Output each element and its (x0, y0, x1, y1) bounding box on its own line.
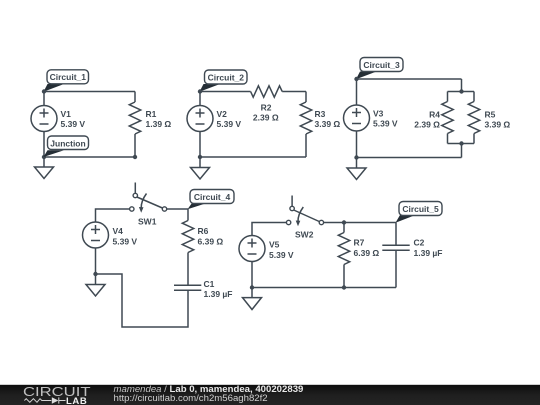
wire V3 top stub (356, 79, 358, 105)
wire top net Circuit_1 (44, 91, 135, 93)
node Circuit_3 junction dot (354, 77, 358, 81)
wire V2 top stub (199, 92, 201, 106)
svg-text:R6: R6 (198, 226, 209, 236)
svg-text:5.39 V: 5.39 V (373, 119, 398, 129)
svg-text:C1: C1 (204, 279, 215, 289)
node V5 bottom dot (250, 285, 254, 289)
svg-text:LAB: LAB (66, 396, 87, 405)
wire parallel top bar (448, 91, 475, 93)
wire bottom net Junction (44, 156, 135, 158)
svg-text:Circuit_1: Circuit_1 (50, 72, 87, 82)
node R7 top dot (342, 220, 346, 224)
wire V3 bottom stub (356, 131, 358, 158)
ground GND5 (243, 298, 262, 310)
wire bottom net circuit 5 (252, 287, 396, 289)
ground GND3 (347, 158, 366, 180)
svg-text:V5: V5 (269, 240, 280, 250)
svg-text:3.39 Ω: 3.39 Ω (485, 120, 511, 130)
node Circuit_1 junction dot (42, 89, 46, 93)
wire V1 top stub (43, 92, 45, 106)
svg-text:C2: C2 (414, 238, 425, 248)
node Junction dot left (42, 155, 46, 159)
footer bar (0, 385, 540, 405)
node R1 bottom dot (133, 155, 137, 159)
node V4 bottom dot (93, 272, 97, 276)
capacitor C2 (382, 223, 442, 288)
wire bottom net circuit 3 (357, 157, 462, 159)
node Circuit_2 junction dot (198, 89, 202, 93)
ground GND2 (191, 157, 210, 179)
label Circuit_1 (44, 70, 89, 92)
wire V2 bottom stub (199, 132, 201, 158)
CircuitLab logo (23, 385, 91, 405)
svg-text:R4: R4 (429, 110, 440, 120)
svg-text:5.39 V: 5.39 V (269, 250, 294, 260)
svg-text:6.39 Ω: 6.39 Ω (354, 248, 380, 258)
svg-text:R5: R5 (485, 110, 496, 120)
capacitor C1 (174, 279, 233, 299)
svg-text:6.39 Ω: 6.39 Ω (198, 237, 224, 247)
voltage source V2 (187, 106, 241, 132)
svg-text:SW1: SW1 (138, 217, 157, 227)
voltage source V5 (239, 236, 294, 262)
svg-text:Junction: Junction (50, 139, 85, 149)
svg-text:1.39 µF: 1.39 µF (414, 248, 443, 258)
svg-text:5.39 V: 5.39 V (113, 237, 138, 247)
resistor R2 (251, 86, 283, 123)
svg-text:5.39 V: 5.39 V (61, 119, 86, 129)
svg-text:Circuit_2: Circuit_2 (208, 72, 245, 82)
wire V1 bottom stub (43, 132, 45, 158)
voltage source V3 (344, 105, 398, 131)
svg-text:R1: R1 (146, 109, 157, 119)
svg-text:V4: V4 (113, 226, 124, 236)
svg-text:V1: V1 (61, 109, 72, 119)
node V3 bottom dot (354, 155, 358, 159)
svg-text:R7: R7 (354, 238, 365, 248)
label Junction (44, 136, 89, 157)
svg-text:R3: R3 (315, 109, 326, 119)
svg-text:2.39 Ω: 2.39 Ω (414, 120, 440, 130)
resistor R5 (468, 92, 510, 144)
resistor R6 (182, 209, 223, 285)
node V2 bottom dot (198, 155, 202, 159)
node R7 bottom dot (342, 285, 346, 289)
voltage source V1 (31, 106, 85, 132)
wire top-right segment (282, 91, 306, 93)
wire SW2 to C2 (324, 222, 396, 224)
wire V5 bottom stub (251, 262, 253, 298)
wire top net Circuit_3 (357, 78, 462, 80)
resistor R3 (300, 92, 340, 158)
svg-text:R2: R2 (261, 103, 272, 113)
svg-text:V2: V2 (217, 109, 228, 119)
svg-text:1.39 µF: 1.39 µF (204, 289, 233, 299)
label Circuit_2 (200, 70, 248, 92)
resistor R1 (129, 92, 171, 158)
ground GND1 (35, 157, 54, 179)
switch SW2 (286, 196, 323, 240)
svg-text:5.39 V: 5.39 V (217, 119, 242, 129)
resistor R4 (414, 92, 453, 144)
label Circuit_4 (188, 190, 235, 210)
wire top-left net Circuit_2 (200, 91, 251, 93)
svg-text:http://circuitlab.com/ch2m56ag: http://circuitlab.com/ch2m56agh82f2 (114, 393, 268, 404)
wire V4 bottom stub (95, 248, 97, 285)
svg-text:3.39 Ω: 3.39 Ω (315, 119, 341, 129)
node parallel top dot (459, 89, 463, 93)
label Circuit_5 (396, 202, 443, 223)
wire C1 bottom return (96, 274, 189, 327)
wire V4 top stub (96, 209, 130, 222)
resistor R7 (338, 223, 379, 288)
wire parallel bottom bar (448, 143, 475, 145)
svg-text:V3: V3 (373, 109, 384, 119)
voltage source V4 (83, 222, 138, 248)
svg-text:Circuit_4: Circuit_4 (194, 192, 231, 202)
svg-text:Circuit_5: Circuit_5 (402, 204, 439, 214)
wire parallel feed bottom (461, 144, 463, 158)
wire SW1 to R6 (167, 208, 188, 210)
svg-text:Circuit_3: Circuit_3 (363, 60, 400, 70)
svg-text:SW2: SW2 (295, 230, 314, 240)
label Circuit_3 (356, 58, 403, 80)
svg-text:1.39 Ω: 1.39 Ω (146, 119, 172, 129)
wire V5 top stub (252, 223, 286, 236)
wire bottom net circuit 2 (200, 156, 306, 158)
ground GND4 (86, 285, 105, 297)
switch SW1 (130, 183, 167, 227)
node parallel bottom dot (459, 141, 463, 145)
svg-text:2.39 Ω: 2.39 Ω (253, 113, 279, 123)
wire parallel feed top (461, 79, 463, 92)
